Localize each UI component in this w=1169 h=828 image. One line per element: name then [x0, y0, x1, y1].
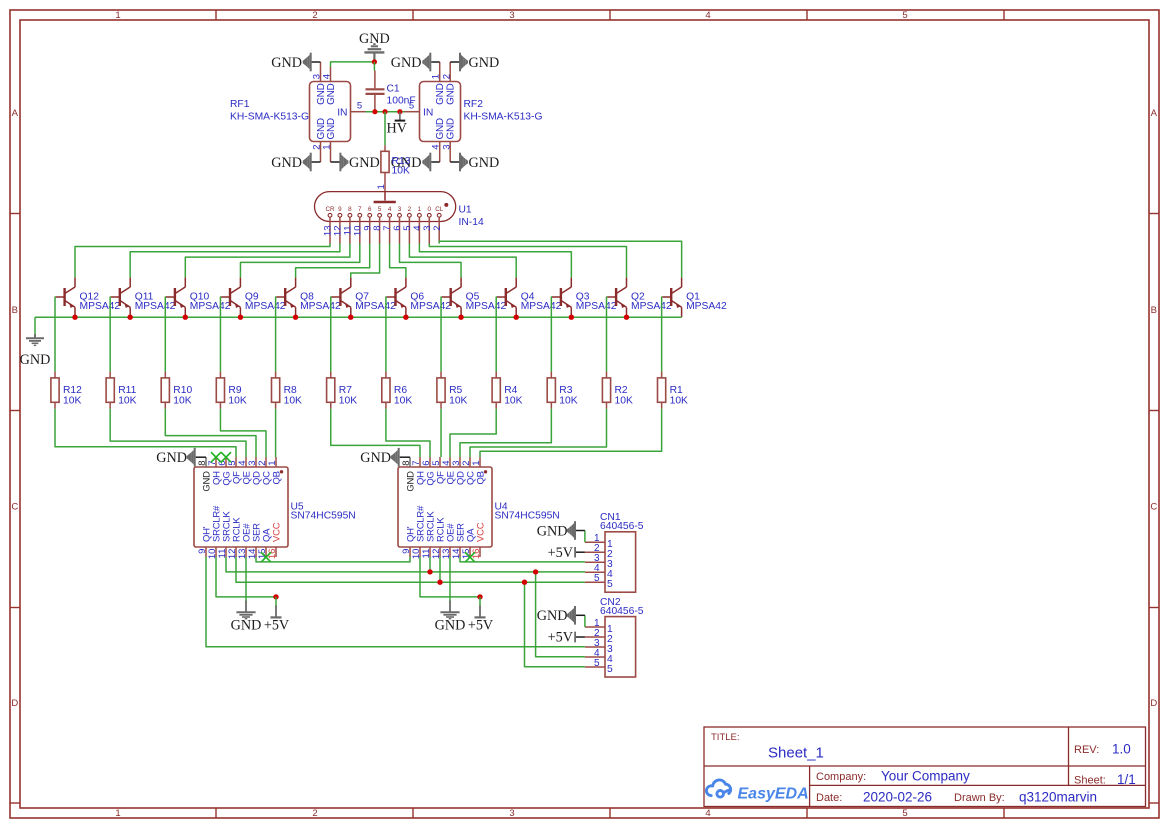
U4 pin 13 OE#	[449, 547, 451, 557]
svg-text:1/1: 1/1	[1117, 772, 1136, 787]
svg-text:MPSA42: MPSA42	[300, 301, 341, 312]
wire R8 to shift register output	[275, 409, 277, 457]
nixie tube U1 IN-14	[315, 192, 456, 222]
svg-text:GND: GND	[445, 83, 456, 104]
svg-text:+5V: +5V	[548, 630, 574, 646]
svg-text:MPSA42: MPSA42	[631, 301, 672, 312]
svg-text:2: 2	[408, 206, 412, 213]
wire SRCLK to CN2 pin4	[536, 572, 585, 657]
resistor R13 10K	[384, 145, 386, 151]
transistor Q1 MPSA42	[662, 278, 681, 318]
svg-text:GND: GND	[156, 450, 187, 466]
wire R5 to shift register output	[440, 409, 442, 457]
svg-text:GND: GND	[349, 155, 380, 171]
ground GND at RF2 pin1	[431, 61, 440, 63]
wire R11 to shift register output	[110, 409, 246, 457]
junction Q9 emitter	[238, 315, 243, 320]
svg-text:MPSA42: MPSA42	[190, 301, 231, 312]
svg-text:GND: GND	[271, 55, 302, 71]
U4 pin 11 SRCLK	[429, 547, 431, 557]
resistor R11 10K	[109, 372, 111, 378]
svg-text:R7: R7	[339, 385, 352, 396]
resistor R12 10K	[54, 372, 56, 378]
U4 pin 12 RCLK	[439, 547, 441, 557]
wire HV to R13	[384, 112, 386, 146]
svg-text:2: 2	[312, 10, 317, 21]
svg-text:KH-SMA-K513-G: KH-SMA-K513-G	[464, 112, 543, 123]
RF1 pin 1	[330, 142, 332, 163]
svg-text:VCC: VCC	[475, 522, 486, 542]
U5 pin 4 QE	[245, 457, 247, 467]
power +5V at CN1 pin2	[576, 551, 585, 553]
wire R6 to shift register output	[386, 409, 430, 457]
wire U4 QH' to U5 SER (serial cascade)	[256, 557, 410, 562]
svg-text:MPSA42: MPSA42	[245, 301, 286, 312]
svg-text:5: 5	[607, 664, 613, 675]
svg-text:U1: U1	[459, 205, 472, 216]
svg-text:10K: 10K	[228, 396, 246, 407]
svg-text:8: 8	[348, 206, 352, 213]
svg-text:R10: R10	[173, 385, 192, 396]
ground GND at U4 pin8	[400, 456, 410, 458]
connector CN1 640456-5	[605, 532, 636, 592]
svg-text:+5V: +5V	[264, 618, 290, 634]
svg-text:RF2: RF2	[464, 99, 484, 110]
wire R7 to shift register output	[331, 409, 420, 457]
svg-text:4: 4	[388, 206, 392, 213]
svg-text:2: 2	[312, 808, 317, 819]
CN2 pin 1	[585, 626, 605, 628]
svg-text:1: 1	[322, 145, 333, 150]
U5 pin 12 RCLK	[235, 547, 237, 557]
svg-text:SN74HC595N: SN74HC595N	[495, 511, 560, 522]
svg-text:10K: 10K	[63, 396, 81, 407]
junction Q6 emitter	[403, 315, 408, 320]
connector CN2 640456-5	[605, 617, 636, 677]
svg-text:10K: 10K	[392, 166, 410, 177]
junction Q11 emitter	[127, 315, 132, 320]
wire cathode 8 to Q10 collector	[185, 244, 350, 278]
junction top GND	[372, 59, 377, 64]
wire cathode 0 to Q2 collector	[429, 244, 626, 278]
connector RF2	[420, 82, 461, 142]
wire Q12 base to resistor	[54, 297, 57, 372]
svg-text:GND: GND	[391, 55, 422, 71]
svg-text:R3: R3	[559, 385, 572, 396]
svg-text:TITLE:: TITLE:	[711, 732, 740, 743]
svg-text:1: 1	[471, 460, 482, 465]
no-connect X U4 QA	[465, 552, 475, 562]
svg-text:4: 4	[322, 74, 333, 79]
svg-text:MPSA42: MPSA42	[135, 301, 176, 312]
wire Q7 base to resistor	[330, 297, 333, 372]
wire HV net horizontal	[366, 111, 405, 113]
svg-text:2: 2	[432, 226, 443, 231]
RF1 pin 3	[320, 62, 322, 82]
U4 pin 2 QC	[469, 457, 471, 467]
svg-text:B: B	[12, 305, 18, 316]
svg-text:MPSA42: MPSA42	[80, 301, 121, 312]
CN1 pin 1	[585, 541, 605, 543]
U5 pin 2 QC	[265, 457, 267, 467]
svg-text:+5V: +5V	[468, 618, 494, 634]
transistor Q7 MPSA42	[331, 278, 350, 318]
svg-text:GND: GND	[359, 31, 390, 47]
U5 pin 15 QA	[265, 547, 267, 557]
ground GND symbol	[245, 601, 247, 613]
svg-text:R6: R6	[394, 385, 407, 396]
wire OE# to GND	[449, 557, 451, 602]
svg-text:10K: 10K	[670, 396, 688, 407]
svg-text:R11: R11	[118, 385, 136, 396]
svg-text:GND: GND	[271, 155, 302, 171]
wire U4 SER to CN1 pin3	[460, 557, 585, 562]
CN1 pin 2	[585, 551, 605, 553]
svg-text:R8: R8	[284, 385, 297, 396]
junction HV flag	[397, 109, 402, 114]
wire cathode CR to Q12 collector	[75, 244, 330, 278]
svg-text:5: 5	[378, 206, 382, 213]
junction SRCLK CN2 tap	[533, 569, 538, 574]
wire R2 to shift register output	[470, 409, 607, 457]
U4 pin 6 QG	[429, 457, 431, 467]
U4 pin 5 QF	[439, 457, 441, 467]
svg-text:C: C	[1150, 502, 1157, 513]
svg-text:10K: 10K	[394, 396, 412, 407]
ground GND at RF1 pin2	[312, 161, 321, 163]
svg-text:A: A	[1151, 108, 1158, 119]
U5 pin 9 QH'	[205, 547, 207, 557]
svg-text:EasyEDA: EasyEDA	[738, 786, 809, 803]
transistor Q4 MPSA42	[497, 278, 516, 318]
svg-text:10K: 10K	[284, 396, 302, 407]
svg-text:+5V: +5V	[548, 545, 574, 561]
svg-text:10K: 10K	[118, 396, 136, 407]
U5 pin 8 GND	[205, 457, 207, 467]
svg-text:10K: 10K	[504, 396, 522, 407]
svg-text:3: 3	[509, 808, 514, 819]
svg-text:B: B	[1151, 305, 1157, 316]
U5 pin 16 VCC	[275, 547, 277, 557]
wire SRCLK bus U5.11 to CN1 pin4	[226, 557, 585, 572]
svg-text:Drawn By:: Drawn By:	[954, 792, 1005, 804]
U4 pin 4 QE	[449, 457, 451, 467]
ground GND at U5 pin8	[196, 456, 206, 458]
wire cathode 9 to Q11 collector	[130, 244, 340, 278]
junction C1 bottom	[372, 109, 377, 114]
wire RCLK to CN2 pin5	[525, 582, 585, 667]
wire cathode 4 to Q6 collector	[390, 244, 406, 278]
svg-text:R4: R4	[504, 385, 517, 396]
wire R1 to shift register output	[480, 409, 662, 457]
transistor Q8 MPSA42	[276, 278, 295, 318]
resistor R8 10K	[275, 372, 277, 378]
RF1 pin 4	[330, 67, 332, 82]
shift register U4 SN74HC595N	[398, 467, 492, 547]
junction Q8 emitter	[293, 315, 298, 320]
wire cathode 3 to Q5 collector	[400, 244, 462, 278]
wire Q11 base to resistor	[109, 297, 112, 372]
CN1 pin 4	[585, 571, 605, 573]
svg-text:10K: 10K	[449, 396, 467, 407]
transistor Q11 MPSA42	[111, 278, 130, 318]
wire Q4 base to resistor	[495, 297, 498, 372]
svg-text:1: 1	[376, 184, 387, 189]
wire Q8 base to resistor	[275, 297, 278, 372]
U4 pin 15 QA	[469, 547, 471, 557]
junction Q5 emitter	[458, 315, 463, 320]
U1 anode electrode	[374, 201, 396, 204]
svg-text:GND: GND	[469, 155, 500, 171]
transistor Q9 MPSA42	[221, 278, 240, 318]
svg-text:Sheet_1: Sheet_1	[768, 745, 824, 762]
svg-text:SN74HC595N: SN74HC595N	[291, 511, 356, 522]
svg-text:IN: IN	[423, 108, 433, 119]
U1 pin1 indicator dot	[444, 203, 448, 207]
svg-text:6: 6	[368, 206, 372, 213]
ground GND at RF2 pin3	[450, 161, 459, 163]
wire RF1 pin4 to GND junction	[331, 62, 375, 67]
wire Q6 base to resistor	[385, 297, 388, 372]
svg-text:3: 3	[398, 206, 402, 213]
wire VCC to +5V	[275, 597, 277, 607]
RF2 pin 1	[439, 62, 441, 82]
CN2 pin 2	[585, 636, 605, 638]
svg-text:GND: GND	[360, 450, 391, 466]
svg-text:CR: CR	[325, 206, 335, 213]
U5 pin 6 QG	[225, 457, 227, 467]
connector RF1	[310, 82, 351, 142]
U4 pin 16 VCC	[479, 547, 481, 557]
svg-text:C: C	[11, 502, 18, 513]
svg-text:R9: R9	[228, 385, 241, 396]
svg-text:RF1: RF1	[230, 99, 250, 110]
U4 pin 10 SRCLR#	[419, 547, 421, 557]
resistor R1 10K	[661, 372, 663, 378]
svg-text:GND: GND	[435, 618, 466, 634]
svg-text:QB: QB	[271, 471, 282, 484]
svg-text:QB: QB	[475, 471, 486, 484]
U4 pin 1 QB	[479, 457, 481, 467]
ground GND at CN1 pin1	[584, 531, 586, 543]
svg-text:R12: R12	[63, 385, 82, 396]
RF2 pin 3	[449, 142, 451, 163]
svg-text:Company:: Company:	[816, 771, 866, 783]
resistor R5 10K	[440, 372, 442, 378]
junction Q12 emitter	[72, 315, 77, 320]
svg-text:MPSA42: MPSA42	[410, 301, 451, 312]
wire U5 QH' to CN2 pin3	[206, 557, 585, 647]
junction U4 VCC	[477, 594, 482, 599]
svg-text:MPSA42: MPSA42	[686, 301, 727, 312]
U5 pin 1 QB	[275, 457, 277, 467]
svg-text:Date:: Date:	[816, 792, 842, 804]
junction Q4 emitter	[514, 315, 519, 320]
CN1 pin 5	[585, 581, 605, 583]
RF1 pin 2	[320, 142, 322, 163]
wire cathode 6 to Q8 collector	[296, 244, 370, 278]
svg-text:VCC: VCC	[271, 522, 282, 542]
svg-text:640456-5: 640456-5	[600, 606, 644, 617]
transistor Q5 MPSA42	[442, 278, 461, 318]
wire cathode 1 to Q3 collector	[419, 244, 571, 278]
RF2 pin 2	[449, 62, 451, 82]
EasyEDA logo	[706, 780, 730, 797]
junction Q2 emitter	[624, 315, 629, 320]
transistor Q3 MPSA42	[552, 278, 571, 318]
svg-text:R2: R2	[615, 385, 628, 396]
svg-text:q3120marvin: q3120marvin	[1019, 789, 1097, 804]
no-connect X U5 QA	[261, 552, 271, 562]
net flag HV	[399, 112, 401, 120]
transistor Q2 MPSA42	[607, 278, 626, 318]
ground GND at RF2 pin2	[450, 61, 459, 63]
svg-text:5: 5	[607, 579, 613, 590]
RF2 pin 4	[439, 142, 441, 163]
U4 pin 7 QH	[419, 457, 421, 467]
U4 pin 14 SER	[459, 547, 461, 557]
wire cathode CL to Q1 collector	[439, 241, 681, 277]
svg-text:IN-14: IN-14	[459, 217, 484, 228]
U4 pin 8 GND	[409, 457, 411, 467]
svg-text:2: 2	[441, 74, 452, 79]
svg-text:R1: R1	[670, 385, 683, 396]
svg-text:Your Company: Your Company	[881, 769, 970, 784]
svg-text:2020-02-26: 2020-02-26	[863, 789, 932, 804]
U5 pin 13 OE#	[245, 547, 247, 557]
wire Q3 base to resistor	[550, 297, 553, 372]
wire Q1 base to resistor	[661, 297, 664, 372]
wire cathode 2 to Q4 collector	[409, 244, 516, 278]
CN2 pin 3	[585, 646, 605, 648]
U5 pin 3 QD	[255, 457, 257, 467]
wire cathode 7 to Q9 collector	[240, 244, 359, 278]
wire junction to C1	[373, 62, 375, 71]
RF2 pin 5 IN	[405, 111, 420, 113]
shift register U5 SN74HC595N	[194, 467, 288, 547]
svg-text:GND: GND	[537, 608, 568, 624]
svg-text:0: 0	[428, 206, 432, 213]
svg-text:5: 5	[902, 10, 907, 21]
svg-text:1: 1	[267, 460, 278, 465]
ground GND bus left	[34, 317, 36, 337]
wire U4 SRCLR# to VCC	[420, 557, 480, 597]
svg-text:3: 3	[509, 10, 514, 21]
wire Q5 base to resistor	[440, 297, 443, 372]
svg-text:GND: GND	[537, 523, 568, 539]
junction U4 RCLK	[437, 580, 442, 585]
ground GND top center	[373, 53, 375, 62]
junction U5 VCC	[273, 594, 278, 599]
svg-text:GND: GND	[326, 83, 337, 104]
RF1 pin 5 IN	[351, 111, 366, 113]
wire Q2 base to resistor	[606, 297, 609, 372]
junction Q10 emitter	[183, 315, 188, 320]
svg-text:5: 5	[357, 101, 362, 112]
svg-text:7: 7	[358, 206, 362, 213]
svg-text:GND: GND	[20, 352, 51, 368]
svg-text:MPSA42: MPSA42	[576, 301, 617, 312]
CN2 pin 5	[585, 666, 605, 668]
svg-text:GND: GND	[469, 55, 500, 71]
svg-text:IN: IN	[337, 108, 347, 119]
resistor R2 10K	[606, 372, 608, 378]
ground GND at RF2 pin4	[431, 161, 440, 163]
wire U5 SRCLR# to VCC	[216, 557, 276, 597]
wire Q10 base to resistor	[164, 297, 167, 372]
svg-text:D: D	[1150, 698, 1157, 709]
wire cathode 5 to Q7 collector	[351, 244, 380, 278]
svg-text:MPSA42: MPSA42	[355, 301, 396, 312]
svg-text:CL: CL	[435, 206, 444, 213]
svg-text:C1: C1	[387, 84, 400, 95]
U4 pin 3 QD	[459, 457, 461, 467]
U5 pin 7 QH	[215, 457, 217, 467]
svg-text:1.0: 1.0	[1112, 742, 1131, 757]
wire Q9 base to resistor	[219, 297, 222, 372]
wire R12 to shift register output	[55, 409, 236, 457]
svg-text:5: 5	[594, 658, 600, 669]
ground GND at CN2 pin1	[584, 615, 586, 627]
wire R4 to shift register output	[450, 409, 496, 457]
svg-text:640456-5: 640456-5	[600, 521, 644, 532]
svg-text:10K: 10K	[173, 396, 191, 407]
svg-text:GND: GND	[445, 118, 456, 139]
svg-text:4: 4	[705, 10, 710, 21]
transistor Q10 MPSA42	[166, 278, 185, 318]
junction Q3 emitter	[569, 315, 574, 320]
svg-text:GND: GND	[326, 118, 337, 139]
svg-text:MPSA42: MPSA42	[521, 301, 562, 312]
svg-text:10K: 10K	[339, 396, 357, 407]
svg-text:Sheet:: Sheet:	[1074, 775, 1106, 787]
junction Q7 emitter	[348, 315, 353, 320]
wire RCLK bus U5.12 to CN1 pin5	[236, 557, 585, 582]
transistor Q12 MPSA42	[56, 278, 75, 318]
wire R10 to shift register output	[165, 409, 256, 457]
svg-text:9: 9	[338, 206, 342, 213]
wire U4 SRCLK tap	[429, 557, 431, 572]
svg-text:MPSA42: MPSA42	[466, 301, 507, 312]
power +5V at CN2 pin2	[576, 636, 585, 638]
resistor R10 10K	[164, 372, 166, 378]
wire VCC to +5V	[479, 597, 481, 607]
U5 pin 10 SRCLR#	[215, 547, 217, 557]
CN1 pin 3	[585, 561, 605, 563]
wire R3 to shift register output	[460, 409, 551, 457]
U5 pin 11 SRCLK	[225, 547, 227, 557]
svg-text:5: 5	[594, 573, 600, 584]
wire U4 RCLK tap	[439, 557, 441, 582]
svg-text:GND: GND	[231, 618, 262, 634]
junction RCLK CN2 tap	[522, 580, 527, 585]
svg-text:100nF: 100nF	[387, 96, 416, 107]
power +5V symbol	[479, 606, 481, 618]
svg-text:10K: 10K	[615, 396, 633, 407]
junction R13 top	[382, 109, 387, 114]
svg-text:R5: R5	[449, 385, 462, 396]
title block	[704, 727, 1146, 807]
U5 pin 14 SER	[255, 547, 257, 557]
resistor R7 10K	[330, 372, 332, 378]
svg-text:4: 4	[431, 145, 442, 150]
junction U4 SRCLK	[427, 569, 432, 574]
svg-text:1: 1	[115, 808, 120, 819]
capacitor C1	[374, 71, 376, 89]
svg-text:HV: HV	[387, 121, 408, 137]
svg-text:REV:: REV:	[1074, 744, 1099, 756]
svg-text:A: A	[12, 108, 19, 119]
